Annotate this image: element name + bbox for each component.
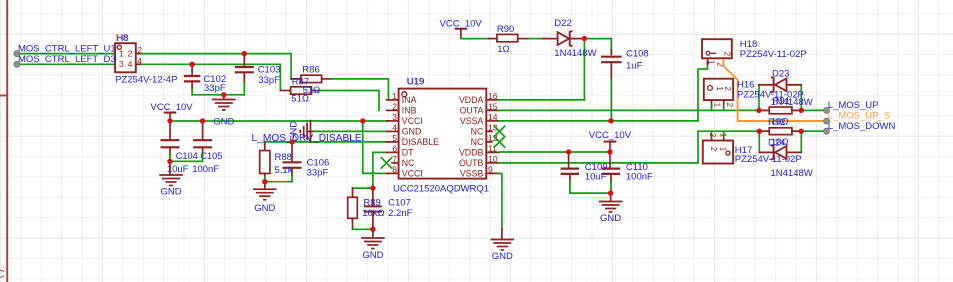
svg-text:2: 2 xyxy=(723,52,732,57)
svg-text:C104: C104 xyxy=(176,151,198,161)
capacitor C104 top lead xyxy=(169,121,171,139)
ground symbol GND (VSSB) xyxy=(491,239,515,241)
junction dot VCC left xyxy=(167,118,172,123)
capacitor C102 top lead xyxy=(191,64,193,75)
svg-text:1: 1 xyxy=(719,133,728,138)
wire U19 VSSB pin9 xyxy=(499,173,502,228)
wire D22 to C108 xyxy=(584,38,611,40)
ic U19 pin 3 stub xyxy=(387,120,399,122)
wire VCCI rail xyxy=(170,120,388,122)
wire D24 right vertical xyxy=(800,131,802,152)
resistor R92 left stub xyxy=(759,130,769,132)
svg-text:3: 3 xyxy=(119,59,124,69)
junction dot C103 tap xyxy=(242,51,247,56)
H8 pin 4 stub xyxy=(136,63,142,65)
svg-text:GND: GND xyxy=(402,127,422,137)
svg-text:VDDA: VDDA xyxy=(459,95,484,105)
junction dot R92 right xyxy=(799,129,804,134)
svg-text:GND: GND xyxy=(160,187,181,198)
svg-text:GND: GND xyxy=(254,203,275,214)
ic U19 pin 11 stub xyxy=(486,151,499,153)
junction dot R91 left xyxy=(756,108,761,113)
junction dot VCCI branch xyxy=(360,118,365,123)
wire R86 to U19 INA xyxy=(331,79,388,100)
svg-text:GND: GND xyxy=(213,116,234,127)
diode D22 xyxy=(558,32,570,45)
svg-text:L_MOS_UP_S: L_MOS_UP_S xyxy=(828,110,890,121)
svg-text:L_MOS_DRV_DISABLE: L_MOS_DRV_DISABLE xyxy=(252,133,362,144)
resistor R91 xyxy=(769,107,792,114)
junction dot R92 left xyxy=(757,129,762,134)
nc cross pin12 xyxy=(494,137,504,147)
junction dot ground tap xyxy=(221,92,226,97)
supply VCC_10V symbol (middle) xyxy=(604,141,617,143)
wire H8 pin4 to R87 (net to INB) xyxy=(142,64,281,90)
svg-text:D23: D23 xyxy=(772,68,789,79)
svg-text:2: 2 xyxy=(392,101,397,111)
resistor R91 left stub xyxy=(759,109,769,111)
svg-text:R86: R86 xyxy=(302,64,319,75)
capacitor C106 xyxy=(283,161,302,163)
ic U19 pin 2 stub xyxy=(387,109,399,111)
ground symbol GND (R88/C106) xyxy=(253,188,277,190)
ic U19 pin 10 stub xyxy=(486,162,499,164)
wire OUTB up to L_MOS_DOWN row xyxy=(698,131,827,163)
capacitor C109 xyxy=(561,168,580,170)
svg-text:100nF: 100nF xyxy=(626,172,653,183)
svg-text:DT: DT xyxy=(402,148,414,158)
resistor R87 right stub xyxy=(311,90,320,92)
svg-text:INA: INA xyxy=(402,95,417,105)
svg-text:6: 6 xyxy=(392,143,397,153)
ground stub R88 xyxy=(264,182,266,189)
ic U19 pin 4 stub xyxy=(387,130,399,132)
svg-text:1N4148W: 1N4148W xyxy=(771,168,813,179)
junction dot C109 tap xyxy=(566,149,571,154)
junction dot C105 tap xyxy=(200,118,205,123)
junction dot VDDB supply xyxy=(607,149,612,154)
svg-text:2.2nF: 2.2nF xyxy=(388,208,412,219)
svg-text:NC: NC xyxy=(471,137,484,147)
resistor R92 right stub xyxy=(792,130,801,132)
svg-text:1: 1 xyxy=(713,103,722,108)
ground stub C102/C103 xyxy=(223,95,225,99)
connector H17 body xyxy=(703,141,733,164)
svg-text:10uF: 10uF xyxy=(167,164,189,175)
ic U19 pin 15 stub xyxy=(486,109,499,111)
wire U19 OUTA pin15 (L_MOS_UP net) xyxy=(499,109,827,111)
capacitor C105 xyxy=(193,139,212,141)
svg-text:NC: NC xyxy=(402,158,415,168)
wire VSSA up to H18 xyxy=(698,63,708,121)
ground symbol GND (C104/C105) xyxy=(159,174,183,176)
connector H17 pin stubs to L_MOS_DOWN xyxy=(711,135,713,141)
ground stub VSSB xyxy=(501,229,503,239)
svg-text:VCC_10V: VCC_10V xyxy=(150,102,193,113)
wire MOS_CTRL_LEFT_D3 to H8 pin3 xyxy=(17,63,115,65)
wire D22 junction down to VDDA xyxy=(583,39,585,100)
svg-text:33pF: 33pF xyxy=(258,75,280,86)
junction dot C102 tap xyxy=(189,62,194,67)
svg-text:H8: H8 xyxy=(117,33,129,44)
wire R89 bottom xyxy=(353,228,373,230)
wire R87 to U19 INB xyxy=(321,91,379,111)
svg-text:NC: NC xyxy=(471,127,484,137)
svg-text:C108: C108 xyxy=(626,49,649,60)
ic U19 body xyxy=(399,89,487,179)
wire D23 left vertical xyxy=(758,85,760,111)
capacitor C105 top lead xyxy=(202,121,204,139)
wire C102/C103 bottoms to ground xyxy=(192,94,244,96)
connector H18 body xyxy=(702,39,732,58)
capacitor C104 bottom lead xyxy=(169,148,171,155)
svg-text:INB: INB xyxy=(402,106,417,116)
diode D23 anode lead xyxy=(787,84,802,86)
wire R90 to D22 xyxy=(529,38,545,40)
svg-text:33pF: 33pF xyxy=(307,168,329,179)
port dot L_MOS_DOWN xyxy=(824,128,830,134)
svg-text:4: 4 xyxy=(128,59,133,69)
wire VCC to R90 xyxy=(461,38,489,40)
ic U19 pin 8 stub xyxy=(387,172,399,174)
svg-text:C105: C105 xyxy=(200,151,222,161)
resistor R91 right stub xyxy=(792,109,801,111)
svg-text:100nF: 100nF xyxy=(192,164,219,175)
svg-text:2: 2 xyxy=(128,48,133,58)
ic U19 pin 5 stub xyxy=(387,141,399,143)
capacitor C110 bottom lead xyxy=(610,175,612,182)
svg-text:R89: R89 xyxy=(363,197,380,208)
svg-text:VCC_10V: VCC_10V xyxy=(440,18,483,29)
ground symbol GND (R89/C107) xyxy=(361,237,385,239)
junction dot C106 tap xyxy=(289,139,294,144)
svg-text:VDDB: VDDB xyxy=(459,148,484,158)
ground stub C109/C110 xyxy=(610,193,612,201)
diode D22 anode lead xyxy=(543,38,558,40)
port dot L_MOS_UP_S xyxy=(824,118,830,124)
svg-text:VCC_10V: VCC_10V xyxy=(589,130,632,141)
connector H16 pin1 marker circle xyxy=(708,86,713,91)
ic U19 pin 6 stub xyxy=(387,151,399,153)
svg-text:PZ254V-12-4P: PZ254V-12-4P xyxy=(115,74,177,85)
junction dot C109/C110 ground xyxy=(608,190,613,195)
svg-text:C: C xyxy=(0,269,5,281)
svg-text:VCCI: VCCI xyxy=(402,116,423,126)
svg-text:7: 7 xyxy=(392,154,397,164)
wire C104/C105 bottoms xyxy=(170,160,203,162)
wire D24 left vertical xyxy=(758,131,760,152)
svg-text:3: 3 xyxy=(392,112,397,122)
svg-text:GND: GND xyxy=(362,250,383,261)
capacitor C103 top lead xyxy=(243,54,245,66)
junction dot C104 ground xyxy=(167,159,172,164)
capacitor C107 xyxy=(364,205,382,207)
capacitor C110 xyxy=(602,168,621,170)
svg-text:MOS_CTRL_LEFT_D3: MOS_CTRL_LEFT_D3 xyxy=(18,54,116,65)
capacitor C103 bottom lead xyxy=(243,73,245,84)
svg-text:GND: GND xyxy=(492,251,513,262)
svg-text:14: 14 xyxy=(488,112,498,122)
connector H8 pin1 marker circle xyxy=(117,45,121,49)
resistor R88 xyxy=(260,151,270,174)
svg-text:R88: R88 xyxy=(275,152,292,163)
junction dot DT bottom xyxy=(370,227,375,232)
resistor R86 xyxy=(301,75,322,82)
nc cross pin13 xyxy=(494,126,504,136)
ic U19 pin 16 stub xyxy=(486,99,499,101)
svg-text:2: 2 xyxy=(725,103,734,108)
resistor R90 xyxy=(497,34,518,41)
wire U19 DT pin6 xyxy=(373,152,389,188)
ground stub C104 xyxy=(169,161,171,174)
svg-text:10kΩ: 10kΩ xyxy=(362,208,384,219)
wire DISABLE net xyxy=(264,141,388,143)
svg-text:8: 8 xyxy=(392,164,397,174)
capacitor C109 bottom lead xyxy=(569,175,571,182)
resistor R86 right stub xyxy=(322,78,331,80)
ground stub DT xyxy=(372,229,374,237)
svg-text:10uF: 10uF xyxy=(585,172,607,183)
svg-text:2: 2 xyxy=(723,86,732,91)
svg-text:DISABLE: DISABLE xyxy=(402,137,439,147)
svg-text:C107: C107 xyxy=(388,197,411,208)
ic U19 pin 14 stub xyxy=(486,120,499,122)
wire U19 OUTB pin10 xyxy=(499,162,698,164)
resistor R88 top lead xyxy=(264,142,266,151)
wire D23 right vertical xyxy=(800,85,802,111)
svg-text:4: 4 xyxy=(392,122,397,132)
capacitor C108 top lead xyxy=(610,39,612,55)
wire H8 pin2 to R86 (net to INA) xyxy=(142,54,292,79)
resistor R89 top lead xyxy=(352,188,354,196)
resistor R90 left stub xyxy=(489,38,497,40)
ground symbol rotated (U19 pin4) xyxy=(310,120,312,143)
svg-text:UCC21520AQDWRQ1: UCC21520AQDWRQ1 xyxy=(393,184,489,195)
capacitor C107 top lead xyxy=(372,188,374,205)
ic U19 pin 13 stub xyxy=(486,130,492,132)
svg-text:51Ω: 51Ω xyxy=(291,94,309,105)
ic U19 pin 7 stub xyxy=(392,162,399,164)
port dot MOS_CTRL_LEFT_U1 xyxy=(14,51,20,57)
svg-text:1: 1 xyxy=(719,147,728,152)
ground symbol GND (C109/C110) xyxy=(599,201,623,203)
wire U19 pin4 GND xyxy=(313,130,389,132)
diode D22 cathode lead xyxy=(571,38,584,40)
svg-text:1Ω: 1Ω xyxy=(497,44,509,55)
capacitor C110 top lead xyxy=(609,152,611,167)
svg-text:OUTB: OUTB xyxy=(459,158,484,168)
svg-text:MOS_CTRL_LEFT_U1: MOS_CTRL_LEFT_U1 xyxy=(18,43,116,54)
wire VCCI branch down to pin8 xyxy=(363,121,389,173)
supply VCC_10V symbol (top) xyxy=(455,28,468,30)
supply VCC_10V symbol (left) xyxy=(164,112,177,114)
resistor R86 left stub xyxy=(291,78,301,80)
svg-text:1uF: 1uF xyxy=(626,60,643,71)
diode D24 cathode lead xyxy=(759,151,772,153)
svg-text:15: 15 xyxy=(488,101,498,111)
svg-text:1: 1 xyxy=(119,48,124,58)
svg-text:9: 9 xyxy=(488,164,493,174)
wire C106 bottom to R88 bottom xyxy=(265,181,292,183)
capacitor C102 bottom lead xyxy=(191,83,193,91)
resistor R87 xyxy=(291,87,312,94)
svg-text:2: 2 xyxy=(709,147,718,152)
wire MOS_CTRL_LEFT_U1 to H8 pin1 xyxy=(17,53,115,55)
svg-text:16: 16 xyxy=(488,91,498,101)
svg-text:OUTA: OUTA xyxy=(460,106,484,116)
port dot MOS_CTRL_LEFT_D3 xyxy=(14,61,20,67)
connector H18 pin1 marker circle xyxy=(706,51,710,55)
capacitor C106 top lead xyxy=(291,142,293,161)
resistor R88 bottom lead xyxy=(264,174,266,179)
resistor R92 xyxy=(769,128,792,135)
capacitor C107 bottom lead xyxy=(372,213,374,230)
connector H16 body xyxy=(704,79,733,100)
capacitor C108 bottom lead xyxy=(610,63,612,80)
wire C109/C110 bottoms xyxy=(570,192,611,194)
svg-text:33pF: 33pF xyxy=(204,83,226,94)
wire U19 VSSA pin14 xyxy=(499,120,698,122)
svg-text:VSSA: VSSA xyxy=(460,116,484,126)
svg-text:U19: U19 xyxy=(407,76,424,87)
junction dot R88/C106 ground xyxy=(262,179,267,184)
ic U19 pin 1 stub xyxy=(387,99,399,101)
svg-text:1: 1 xyxy=(707,60,716,65)
svg-text:GND: GND xyxy=(288,121,299,142)
svg-text:1N4148W: 1N4148W xyxy=(554,48,596,59)
capacitor C102 xyxy=(184,75,201,77)
wire U19 VDDA pin16 xyxy=(499,99,585,101)
svg-text:VSSB: VSSB xyxy=(460,169,484,179)
ic U19 pin1 marker circle xyxy=(402,92,407,97)
junction dot DT top xyxy=(370,185,375,190)
svg-text:R91: R91 xyxy=(773,96,790,107)
svg-text:R90: R90 xyxy=(497,24,514,35)
nc cross pin7 xyxy=(381,158,391,168)
ground stub pin4 xyxy=(309,130,313,132)
svg-text:1: 1 xyxy=(715,86,724,91)
svg-text:VCCI: VCCI xyxy=(402,169,423,179)
junction dot R91 right xyxy=(799,108,804,113)
capacitor C109 top lead xyxy=(568,152,570,167)
svg-text:5: 5 xyxy=(392,133,397,143)
capacitor C105 bottom lead xyxy=(202,148,204,155)
connector H17 pin1 marker circle xyxy=(726,151,730,155)
junction dot C108 to VSSA xyxy=(608,118,613,123)
ground symbol GND (C102/C103) xyxy=(212,99,236,101)
connector H8 body xyxy=(115,43,136,72)
svg-text:D24: D24 xyxy=(768,137,785,148)
svg-text:1: 1 xyxy=(392,91,397,101)
svg-text:10: 10 xyxy=(488,154,498,164)
diode D23 xyxy=(775,78,787,91)
svg-text:PZ254V-11-02P: PZ254V-11-02P xyxy=(740,49,807,60)
junction dot D22 out xyxy=(582,36,587,41)
port dot L_MOS_UP xyxy=(824,107,830,113)
capacitor C106 bottom lead xyxy=(291,169,293,176)
svg-text:PZ254V-11-02P: PZ254V-11-02P xyxy=(735,154,802,165)
svg-text:R87: R87 xyxy=(292,76,309,87)
svg-text:L_MOS_UP: L_MOS_UP xyxy=(828,100,879,111)
capacitor C104 xyxy=(161,139,180,141)
svg-text:2: 2 xyxy=(708,133,717,138)
resistor R89 xyxy=(348,197,358,218)
svg-text:GND: GND xyxy=(600,213,621,224)
svg-text:D22: D22 xyxy=(554,18,571,29)
ic U19 pin 9 stub xyxy=(486,172,499,174)
diode D24 anode lead xyxy=(787,151,802,153)
ic U19 pin 12 stub xyxy=(486,141,492,143)
resistor R90 right stub xyxy=(518,38,529,40)
wire R89 top xyxy=(353,187,373,189)
H8 pin 2 stub xyxy=(136,53,142,55)
connector H16 pin stubs to OUTA xyxy=(711,100,713,106)
connector H18 pin stubs xyxy=(707,58,709,64)
wire orange L_MOS_UP_S from H18 xyxy=(724,60,827,121)
svg-text:L_MOS_DOWN: L_MOS_DOWN xyxy=(828,121,896,132)
resistor R87 left stub xyxy=(280,90,290,92)
svg-text:C103: C103 xyxy=(258,65,281,76)
svg-text:5.1k: 5.1k xyxy=(275,165,293,176)
wire U19 VDDB pin11 xyxy=(499,151,610,153)
resistor R89 bottom lead xyxy=(352,218,354,229)
svg-text:R92: R92 xyxy=(768,117,785,128)
diode D24 xyxy=(775,146,787,159)
diode D23 cathode lead xyxy=(759,84,773,86)
capacitor C108 xyxy=(601,56,622,58)
capacitor C103 xyxy=(235,66,254,68)
